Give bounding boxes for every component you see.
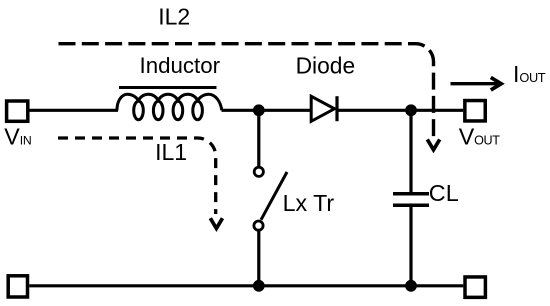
wire node to capacitor <box>409 110 412 192</box>
svg-text:IL2: IL2 <box>158 3 190 29</box>
terminal VIN square <box>7 101 28 121</box>
terminal VOUT square <box>465 101 485 121</box>
node junction at switch top <box>253 104 265 116</box>
wire diode to VOUT <box>337 109 463 112</box>
capacitor CL top plate <box>393 192 429 196</box>
terminal bottom-left square <box>8 276 27 297</box>
wire capacitor to bottom rail <box>409 207 412 286</box>
diode D triangle <box>311 96 334 121</box>
wire dashed IL2 current loop <box>59 44 434 139</box>
bottom rail wire <box>29 284 463 287</box>
node junction switch-bottom <box>253 280 265 292</box>
arrowhead IL2 down <box>427 139 439 149</box>
wire node to switch <box>257 110 260 167</box>
svg-text:IL1: IL1 <box>155 139 187 165</box>
svg-text:Diode: Diode <box>296 52 356 78</box>
node junction at capacitor top <box>405 104 417 116</box>
inductor L coil <box>117 94 222 120</box>
wire VIN to inductor <box>29 109 118 112</box>
switch top contact circle <box>254 167 263 176</box>
node junction capacitor-bottom <box>405 280 417 292</box>
wire switch to bottom rail <box>257 230 260 286</box>
switch bottom contact circle <box>254 221 263 230</box>
svg-text:CL: CL <box>429 180 459 206</box>
svg-text:VOUT: VOUT <box>459 124 501 150</box>
arrow IOUT <box>451 82 500 85</box>
capacitor CL bottom plate <box>393 204 429 208</box>
arrowhead IL1 down <box>210 218 222 228</box>
inductor core bar <box>119 86 217 89</box>
diode cathode bar <box>335 96 338 121</box>
terminal bottom-right square <box>465 277 485 297</box>
svg-text:Lx Tr: Lx Tr <box>283 190 335 216</box>
svg-text:Inductor: Inductor <box>140 53 221 78</box>
wire inductor to diode <box>222 109 312 112</box>
switch blade Lx Tr <box>261 172 287 220</box>
svg-text:IOUT: IOUT <box>513 61 546 87</box>
wire dashed IL1 current loop <box>58 138 216 214</box>
svg-text:VIN: VIN <box>4 123 31 149</box>
